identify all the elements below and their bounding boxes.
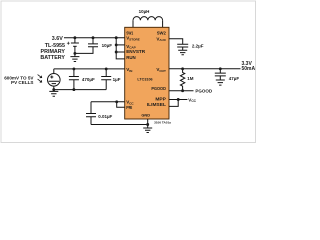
wire: left pin bus VSTORE/VCAP/ENVSTR/RUN bbox=[116, 38, 125, 59]
svg-text:PGOOD: PGOOD bbox=[195, 89, 213, 94]
IC pin labels bbox=[126, 31, 167, 118]
svg-text:VIN: VIN bbox=[126, 67, 133, 73]
svg-text:VOUT: VOUT bbox=[156, 67, 166, 73]
capacitor 10uF bbox=[88, 38, 98, 47]
capacitor 2.2uF bbox=[177, 44, 188, 50]
capacitor 1uF bbox=[101, 69, 111, 90]
svg-text:ENVSTR: ENVSTR bbox=[126, 49, 146, 55]
svg-text:3106 TA01a: 3106 TA01a bbox=[154, 120, 171, 124]
svg-text:VCAP: VCAP bbox=[126, 44, 136, 50]
svg-text:GND: GND bbox=[141, 113, 150, 118]
svg-text:3.6V: 3.6V bbox=[52, 36, 63, 42]
node GND bbox=[146, 123, 149, 126]
op-amp U1 LTC3106 body bbox=[125, 27, 169, 119]
node 470uF top bbox=[72, 67, 75, 70]
svg-text:PRI: PRI bbox=[126, 105, 133, 111]
svg-text:VSTORE: VSTORE bbox=[126, 36, 140, 42]
svg-text:VCC: VCC bbox=[126, 100, 134, 106]
svg-text:2.2µF: 2.2µF bbox=[192, 43, 204, 48]
svg-text:47µF: 47µF bbox=[229, 76, 240, 81]
capacitor 0.01uF bbox=[86, 102, 96, 125]
wire: VAUX to 2.2uF bbox=[169, 39, 183, 44]
wire: GND pin bbox=[147, 119, 149, 128]
node battery minus bbox=[73, 52, 76, 55]
svg-text:10µH: 10µH bbox=[139, 9, 150, 14]
resistor 1M bbox=[180, 69, 184, 91]
svg-text:PRIMARY: PRIMARY bbox=[41, 49, 66, 55]
svg-text:LTC3106: LTC3106 bbox=[137, 77, 153, 82]
node PV bottom bbox=[52, 88, 55, 91]
svg-text:1M: 1M bbox=[187, 76, 194, 81]
svg-text:50mA: 50mA bbox=[242, 66, 256, 72]
wire: PV top lead bbox=[53, 69, 55, 73]
svg-text:RUN: RUN bbox=[126, 55, 136, 61]
svg-text:PV CELLS: PV CELLS bbox=[11, 80, 33, 85]
ground (47uF) bbox=[216, 80, 225, 85]
wire: 10uF bottom to battery minus bbox=[75, 47, 93, 54]
svg-text:ILIMSEL: ILIMSEL bbox=[147, 102, 166, 108]
value and net labels bbox=[82, 9, 256, 119]
node bus VCAP bbox=[115, 43, 118, 46]
wire: bus stub VCAP bbox=[116, 44, 125, 46]
wire: PGOOD bbox=[169, 90, 194, 92]
ground (battery) bbox=[70, 53, 79, 61]
light arrows bbox=[38, 75, 42, 78]
node VOUT/47uF bbox=[219, 67, 222, 70]
capacitor 47uF bbox=[215, 69, 226, 80]
wire: battery 3.6V rail to VSTORE bbox=[64, 37, 125, 39]
svg-text:VAUX: VAUX bbox=[156, 36, 166, 42]
node PGOOD/1M bbox=[181, 89, 184, 92]
node 1uF top bbox=[105, 67, 108, 70]
wire: bus stub ENVSTR bbox=[116, 51, 125, 53]
node bus ENVSTR bbox=[115, 51, 118, 54]
node MPP/ILIMSEL bbox=[177, 98, 180, 101]
node VCC tie bbox=[115, 100, 118, 103]
svg-text:10µF: 10µF bbox=[102, 43, 113, 48]
PV cell source bbox=[48, 74, 61, 87]
battery BT1 TL-5955 bbox=[74, 38, 76, 43]
junction dots bbox=[52, 36, 221, 126]
svg-text:1µF: 1µF bbox=[113, 77, 121, 82]
node bus top bbox=[115, 36, 118, 39]
ground (GND pin) bbox=[143, 128, 152, 133]
wire: VOUT rail bbox=[169, 68, 241, 70]
wire: PV bottom bbox=[53, 86, 55, 90]
node battery rail bbox=[73, 36, 76, 39]
border frame bbox=[1, 1, 256, 143]
svg-text:VCC: VCC bbox=[188, 97, 196, 103]
svg-text:0.01µF: 0.01µF bbox=[98, 114, 112, 119]
svg-text:PGOOD: PGOOD bbox=[151, 86, 166, 92]
wire: bottom VIN return rail bbox=[54, 89, 106, 91]
node VOUT/1M bbox=[181, 67, 184, 70]
wire: bottom ground rail to GND pin bbox=[91, 124, 148, 126]
svg-text:470µF: 470µF bbox=[82, 77, 95, 82]
capacitor 470uF bbox=[69, 69, 79, 90]
wire: MPP/ILIMSEL to VCC bbox=[169, 99, 187, 101]
svg-text:BATTERY: BATTERY bbox=[40, 55, 65, 61]
ground (2.2uF) bbox=[178, 50, 187, 55]
wire: VIN rail bbox=[54, 68, 125, 70]
svg-text:MPP: MPP bbox=[155, 97, 166, 103]
node 470uF bottom bbox=[72, 88, 75, 91]
inductor L1 10uH bbox=[132, 20, 134, 27]
wire: VCC/PRI tie bbox=[91, 101, 125, 103]
node 10uF top bbox=[92, 36, 95, 39]
ground (PV) bbox=[49, 90, 58, 97]
